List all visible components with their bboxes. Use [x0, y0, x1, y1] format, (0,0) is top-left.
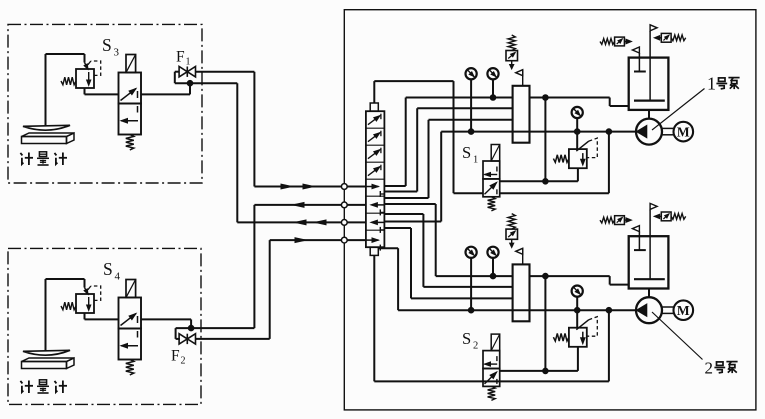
control block (system 2) [513, 264, 530, 321]
svg-text:F: F [171, 348, 180, 365]
level switch right (system 1) [654, 33, 686, 42]
wire S-valve to relief line (system 1) [500, 180, 578, 182]
wire tank to pump (system 2) [648, 289, 650, 298]
shaft pump-motor (system 1) [662, 128, 674, 134]
wire block to limit flag (system 2) [522, 248, 524, 264]
wire manifold stub to pump1 line [384, 132, 441, 222]
svg-text:2: 2 [181, 356, 186, 367]
wire return riser (system 2) [608, 310, 610, 381]
wire F1 left loop [175, 72, 238, 84]
pressure gauge G6 [572, 286, 583, 297]
tank level pipe (system 2) [649, 210, 651, 280]
line 2 (from manifold) with flow arrow left [254, 203, 366, 208]
oil tank (system 1) [629, 58, 669, 110]
svg-text:M: M [677, 303, 690, 318]
level switch right (system 2) [654, 212, 686, 221]
svg-text:M: M [677, 124, 690, 139]
unloader valve assembly (system 2) [506, 214, 518, 248]
wire tank to pump (system 1) [648, 110, 650, 119]
wire manifold stub to line y298.4 [384, 228, 411, 298]
svg-text:S: S [103, 259, 113, 279]
wire relief to valve line (system 1) [577, 168, 579, 181]
tank bottom bar (system 2) [634, 278, 665, 280]
control block (system 1) [513, 86, 530, 143]
flag switch on block (system 1) [516, 70, 523, 76]
node: bulkhead port 1 [341, 184, 347, 190]
line 1 (to manifold) with flow arrows right [254, 184, 366, 189]
relief valve of metering unit (unit 2) [61, 286, 101, 313]
manifold check-valve stack body [366, 111, 385, 247]
svg-text:2: 2 [705, 359, 714, 378]
leader line to pump 2 label [652, 312, 703, 360]
relief valve (system 2) [553, 317, 597, 347]
svg-text:2: 2 [473, 341, 478, 352]
leader line to pump 1 label [652, 89, 705, 131]
wire return riser (system 1) [608, 132, 610, 194]
wire manifold lines into block (system 1) [406, 98, 637, 132]
wire gauge to top line (system 1) [492, 80, 494, 98]
valve S2 [483, 334, 500, 400]
pressure gauge G3 [572, 107, 583, 118]
wire manifold lines into block (system 2) [398, 276, 636, 310]
line 3 (from manifold) with flow arrows left [237, 220, 366, 225]
label 计量计 (unit 1) [20, 152, 67, 165]
weight/dish of metering device (unit 1) [23, 125, 70, 130]
label S4 [103, 259, 121, 283]
label S2 [462, 329, 478, 352]
tank suction pipe + strainer (system 2) [634, 232, 646, 251]
wire S2 bottom line through valve [483, 380, 609, 382]
manifold bottom port square [370, 247, 378, 255]
wire block output down to valve line (system 1) [544, 98, 546, 182]
shut-off valve F1 [179, 67, 195, 77]
wire block to tank inlet (system 1) [530, 98, 629, 107]
flag switch on block (system 2) [516, 248, 523, 254]
pump 1 [636, 119, 662, 145]
level flag A (system 2) [632, 226, 639, 232]
wire S-valve to relief line (system 2) [500, 370, 578, 372]
svg-text:1: 1 [707, 74, 716, 94]
svg-text:F: F [176, 49, 185, 66]
wire relief to valve line (system 2) [577, 347, 579, 371]
wire block to limit flag (system 1) [522, 70, 524, 86]
plate under dish (unit 2) [22, 358, 75, 369]
level flag B (system 2) [650, 203, 657, 209]
wire gauge to top line (system 2) [492, 258, 494, 276]
wire manifold stub to line y276.1 [384, 204, 435, 276]
valve S4 (3/2 solenoid valve) [119, 280, 142, 376]
shaft pump-motor (system 2) [662, 307, 674, 313]
svg-text:3: 3 [114, 47, 120, 59]
manifold cells with check arrows [366, 114, 385, 251]
wire relief to valve (unit 2) [85, 313, 119, 319]
node: bulkhead port 2 [341, 202, 347, 208]
pressure gauge G5 [487, 247, 498, 258]
wire line 3 riser to F1 junction line [236, 83, 238, 222]
wire F2 left loop [176, 328, 255, 339]
wire loop to dish (unit 2) [46, 279, 89, 351]
weight/dish of metering device (unit 2) [23, 350, 70, 355]
valve S3 (3/2 solenoid valve) [119, 55, 142, 151]
plate under dish (unit 1) [22, 133, 75, 144]
svg-text:S: S [462, 329, 471, 348]
tank suction pipe + strainer (system 1) [634, 53, 646, 72]
wire block to tank inlet (system 2) [530, 276, 629, 285]
node block output (system 2) [543, 273, 549, 279]
motor M1 [674, 122, 694, 142]
node at valve line (system 2) [543, 368, 549, 374]
level switch left (system 1) [600, 37, 632, 46]
level flag B (system 1) [650, 25, 657, 31]
svg-text:1: 1 [186, 57, 191, 68]
tank bottom bar (system 1) [634, 99, 665, 101]
wire S1 loop line [454, 192, 609, 194]
motor M2 [674, 300, 694, 320]
node: junction below F1 [187, 80, 193, 86]
label F2 [171, 348, 186, 367]
svg-text:4: 4 [115, 271, 121, 283]
pressure gauge G1 [466, 68, 477, 79]
wire manifold stub to line y286.9 [384, 214, 423, 287]
wire gauge3 to relief (system 2) [576, 297, 578, 328]
wire manifold stub to line y108.3 [384, 108, 417, 191]
wire gauge3 to relief (system 1) [576, 118, 578, 149]
pump 2 [636, 297, 662, 323]
wire block output down to valve line (system 2) [544, 276, 546, 371]
node at valve line (system 1) [543, 179, 549, 185]
enclosure: metering unit 2 box (dash-dot) [8, 248, 201, 404]
level switch left (system 2) [600, 216, 632, 225]
wire manifold top port to S1 loop [374, 81, 453, 193]
node on pump line (system 1) [468, 129, 474, 135]
wire F1 to line 1 riser [196, 72, 255, 187]
node gauge3 pump line (system 1) [574, 129, 580, 135]
node return riser (system 2) [606, 307, 612, 313]
unloader valve assembly (system 1) [506, 35, 518, 69]
wire S4 to F2 junction [141, 319, 191, 328]
wire manifold stub to pump2 line [378, 248, 398, 310]
svg-text:1: 1 [473, 155, 478, 166]
pressure gauge G2 [487, 68, 498, 79]
wire F2 junction up to line 2 [253, 205, 255, 328]
label 1号泵 [707, 74, 740, 94]
node: bulkhead port 4 [341, 237, 347, 243]
node on top line (system 2) [490, 273, 496, 279]
wire gauge to pump line (system 2) [470, 258, 472, 310]
label 2号泵 [705, 359, 738, 378]
node: junction above F2 [188, 325, 194, 331]
node on top line (system 1) [490, 95, 496, 101]
svg-text:S: S [102, 35, 112, 55]
node gauge3 pump line (system 2) [574, 307, 580, 313]
wire manifold stub to line y119.8 [384, 120, 428, 198]
wire S3 to F1 junction [141, 83, 190, 94]
oil tank (system 2) [629, 236, 669, 288]
wire loop to dish (unit 1) [46, 54, 89, 126]
wire relief to valve (unit 1) [85, 88, 119, 94]
valve S1 [483, 145, 500, 211]
relief valve of metering unit (unit 1) [61, 61, 101, 88]
node block output (system 1) [543, 95, 549, 101]
wire gauge to pump line (system 1) [470, 80, 472, 132]
level flag A (system 1) [632, 47, 639, 53]
node on pump line (system 2) [468, 307, 474, 313]
label F1 [176, 49, 191, 68]
node return riser (system 1) [606, 129, 612, 135]
wire manifold bottom port to S2 loop [374, 255, 483, 381]
label S3 [102, 35, 120, 59]
pressure gauge G4 [466, 247, 477, 258]
line 4 (to manifold) with flow arrow right [270, 238, 366, 243]
label 计量计 (unit 2) [20, 380, 67, 393]
svg-text:S: S [462, 143, 471, 162]
manifold top port square [370, 103, 378, 111]
wire F2 to line 4 riser [196, 240, 270, 339]
label S1 [462, 143, 478, 166]
relief valve (system 1) [553, 138, 597, 168]
node: bulkhead port 3 [341, 220, 347, 226]
wire manifold stub to line y97.5 [384, 98, 405, 187]
shut-off valve F2 [179, 334, 195, 344]
enclosure: metering unit 1 box (dash-dot) [8, 24, 202, 183]
enclosure: main hydraulic station box [344, 10, 756, 410]
tank level pipe (system 1) [649, 31, 651, 101]
